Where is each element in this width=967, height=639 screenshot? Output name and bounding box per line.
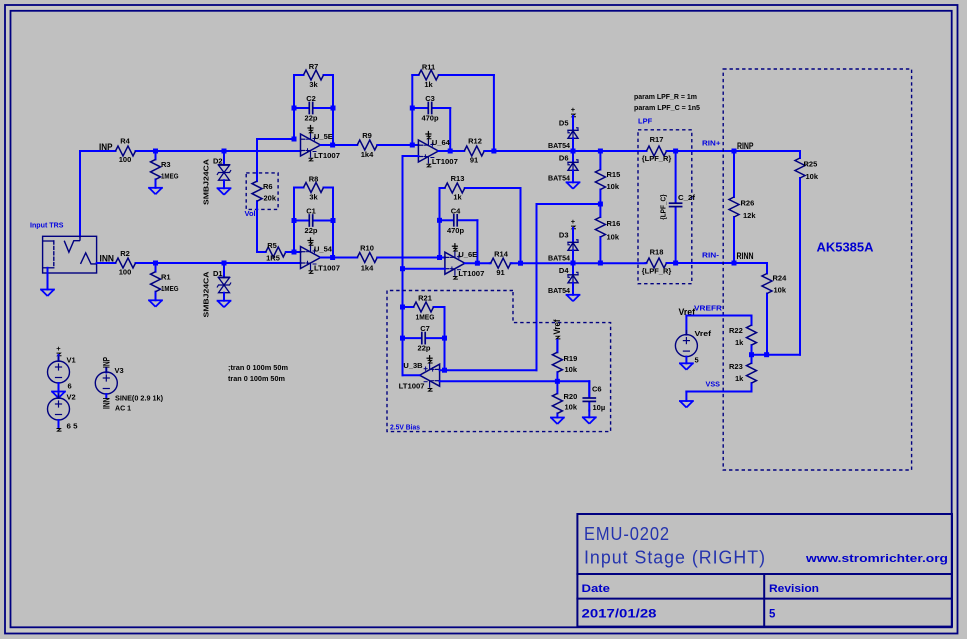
- svg-text:5: 5: [695, 356, 699, 365]
- ground flag between V1 V2: [52, 383, 65, 398]
- diode D4 label: [559, 266, 569, 275]
- wire D2 to ground: [223, 180, 225, 188]
- svg-text:D5: D5: [559, 118, 569, 127]
- voltage source V3 label: [115, 366, 124, 375]
- svg-text:+: +: [571, 105, 576, 114]
- voltage source Vref label: [695, 329, 712, 338]
- svg-text:C3: C3: [425, 94, 435, 103]
- wire V3 top: [105, 369, 107, 373]
- svg-text:Input TRS: Input TRS: [30, 221, 64, 230]
- title block divider 2: [577, 598, 952, 600]
- comment 2.5V Bias: [390, 422, 420, 431]
- svg-text:1k: 1k: [735, 374, 744, 383]
- svg-text:R6: R6: [263, 182, 273, 191]
- wire flag to D5: [572, 116, 574, 130]
- svg-text:22p: 22p: [418, 344, 431, 353]
- svg-text:1k: 1k: [453, 193, 462, 202]
- voltage source V3: [95, 368, 117, 398]
- junction R22 R23: [749, 352, 754, 357]
- comment Input TRS: [30, 221, 64, 230]
- resistor R17: [642, 135, 672, 163]
- wire line to D6: [572, 151, 574, 162]
- svg-text:BAT54: BAT54: [548, 286, 571, 295]
- net label Vref top: [679, 307, 696, 317]
- wire R25 down rail: [799, 185, 801, 355]
- svg-text:RINN: RINN: [737, 251, 754, 261]
- jack tip contact: [64, 236, 80, 252]
- capacitor C3: [412, 94, 450, 123]
- svg-text:U_64: U_64: [432, 138, 451, 147]
- ground below R20: [551, 418, 564, 425]
- svg-text:INN: INN: [100, 253, 115, 263]
- svg-text:R7: R7: [309, 62, 319, 71]
- svg-text:LT1007: LT1007: [458, 269, 484, 278]
- wire D1 stub: [223, 263, 225, 277]
- wire D3 to line: [572, 250, 574, 263]
- svg-text:;tran 0 100m 50m: ;tran 0 100m 50m: [228, 363, 288, 372]
- wire line to D4: [572, 263, 574, 275]
- svg-text:R4: R4: [120, 136, 130, 145]
- resistor R20: [552, 381, 577, 417]
- diode D1 value SMBJ24CA: [202, 271, 211, 318]
- svg-text:SMBJ24CA: SMBJ24CA: [202, 271, 211, 318]
- resistor R11: [412, 62, 445, 89]
- svg-text:R1: R1: [161, 273, 171, 282]
- svg-text:22p: 22p: [305, 114, 318, 123]
- svg-text:3k: 3k: [309, 80, 318, 89]
- resistor R14: [490, 249, 512, 277]
- wire RINP to R25: [734, 151, 800, 157]
- directive param LPF_C: [634, 103, 700, 112]
- wire R12 to node: [485, 150, 573, 152]
- resistor R8: [294, 175, 333, 202]
- op-amp U_6E: [445, 244, 485, 279]
- wire C3 right rail: [449, 108, 451, 151]
- resistor R16: [595, 204, 620, 263]
- junction R16 bottom: [598, 261, 603, 266]
- voltage source V2 label: [67, 393, 76, 402]
- diode D3 label: [559, 230, 569, 239]
- net label INP: [99, 142, 113, 152]
- capacitor C4: [440, 206, 478, 235]
- junction U_54 output: [330, 255, 335, 260]
- svg-text:U_6E: U_6E: [458, 250, 477, 259]
- svg-text:2.5V Bias: 2.5V Bias: [390, 422, 420, 431]
- svg-text:1k: 1k: [424, 80, 433, 89]
- comment LPF box: [638, 130, 692, 284]
- svg-text:INP: INP: [102, 357, 112, 368]
- wire stage1 left rail: [293, 75, 295, 139]
- svg-text:Vref: Vref: [695, 329, 712, 338]
- wire VREF rail 3: [402, 307, 404, 375]
- diode D3 value BAT54: [548, 254, 571, 263]
- svg-text:R26: R26: [741, 199, 755, 208]
- net label INP rotated: [102, 357, 112, 368]
- svg-text:LT1007: LT1007: [314, 151, 340, 160]
- wire VREF rail vertical: [402, 156, 404, 307]
- resistor R12: [464, 137, 486, 165]
- svg-text:3k: 3k: [309, 193, 318, 202]
- svg-text:R24: R24: [773, 274, 788, 283]
- resistor R5: [266, 241, 287, 262]
- comment LPF: [638, 116, 653, 125]
- junction C_2f bottom: [673, 261, 678, 266]
- comment Vol box: [246, 173, 278, 210]
- svg-text:BAT54: BAT54: [548, 254, 571, 263]
- svg-text:10k: 10k: [806, 172, 819, 181]
- resistor R24: [762, 263, 787, 297]
- junction R21 left: [400, 305, 405, 310]
- title 2017/01/28: [582, 609, 658, 621]
- wire stage4 left rail: [439, 188, 441, 258]
- svg-text:R14: R14: [494, 249, 509, 258]
- resistor R22: [729, 316, 757, 355]
- svg-text:1k: 1k: [735, 338, 744, 347]
- junction R24 bottom: [764, 352, 769, 357]
- voltage source V2: [48, 394, 70, 424]
- svg-text:BAT54: BAT54: [548, 174, 571, 183]
- svg-text:{LPF_C}: {LPF_C}: [659, 194, 668, 220]
- wire stage1 right rail: [332, 75, 334, 145]
- svg-text:10k: 10k: [607, 233, 620, 242]
- ground below C6: [583, 417, 596, 424]
- svg-text:10µ: 10µ: [593, 403, 606, 412]
- svg-text:1MEG: 1MEG: [161, 284, 179, 293]
- svg-text:SINE(0 2.9 1k): SINE(0 2.9 1k): [115, 393, 163, 402]
- svg-text:U_54: U_54: [314, 245, 333, 254]
- svg-text:C2: C2: [306, 94, 316, 103]
- wire R18 to RINN: [668, 262, 735, 264]
- title revision 5: [769, 609, 776, 621]
- svg-text:R20: R20: [564, 392, 578, 401]
- svg-text:INP: INP: [99, 142, 113, 152]
- wire R10 to U_6E: [378, 257, 445, 259]
- comment RIN+: [702, 138, 721, 147]
- svg-text:Revision: Revision: [769, 583, 819, 595]
- wire jack sleeve to ground: [47, 268, 49, 290]
- wire stage U_54 left rail: [293, 188, 295, 253]
- wire INP horizontal: [80, 150, 301, 152]
- comment VSS: [706, 380, 721, 389]
- ground below D2: [218, 188, 231, 195]
- junction C7 left: [400, 336, 405, 341]
- voltage source Vref value 5: [695, 356, 699, 365]
- wire U_54 out to R10: [321, 257, 357, 259]
- directive param LPF_R: [634, 92, 697, 101]
- capacitor C6: [583, 381, 605, 412]
- wire U_3B out: [403, 374, 420, 376]
- junction R1 on INN: [153, 261, 158, 266]
- svg-text:100: 100: [119, 155, 132, 164]
- junction stage2 IN- node: [410, 143, 415, 148]
- svg-text:EMU-0202: EMU-0202: [584, 524, 670, 544]
- junction C4 left: [437, 218, 442, 223]
- svg-text:R15: R15: [607, 170, 621, 179]
- wire D5 to line: [572, 138, 574, 151]
- junction RINN: [732, 261, 737, 266]
- net label INN: [100, 253, 115, 263]
- svg-text:12k: 12k: [743, 211, 756, 220]
- svg-text:R21: R21: [418, 293, 432, 302]
- svg-text:1k4: 1k4: [361, 150, 374, 159]
- svg-text:+: +: [571, 217, 576, 226]
- svg-text:C_2f: C_2f: [678, 193, 696, 202]
- resistor R26: [729, 151, 756, 263]
- svg-text:VSS: VSS: [706, 380, 721, 389]
- svg-text:V1: V1: [67, 356, 76, 365]
- resistor R4: [114, 136, 138, 164]
- resistor R19: [552, 340, 577, 381]
- svg-text:R18: R18: [650, 248, 664, 257]
- svg-text:470p: 470p: [447, 226, 465, 235]
- svg-text:RIN-: RIN-: [702, 251, 720, 260]
- comment AK5385A: [817, 241, 874, 255]
- wire Vref to ground: [685, 357, 687, 364]
- wire V2 bottom: [58, 420, 60, 427]
- wire U_6E out to R14: [465, 262, 490, 264]
- junction R19 R20: [555, 379, 560, 384]
- svg-text:V3: V3: [115, 366, 124, 375]
- jack sleeve contact: [43, 241, 53, 268]
- svg-text:R3: R3: [161, 160, 171, 169]
- svg-text:LT1007: LT1007: [399, 382, 425, 391]
- svg-text:5: 5: [769, 609, 776, 621]
- wire R17 to RINP: [668, 150, 735, 152]
- capacitor C2: [294, 94, 333, 123]
- wire RINN to R24: [734, 262, 767, 264]
- ground below D4: [567, 295, 580, 302]
- capacitor C_2f: [659, 151, 696, 263]
- wire INP to R6 top: [256, 139, 258, 173]
- wire D6 to ground: [572, 170, 574, 182]
- junction U_3B IN-: [442, 368, 447, 373]
- svg-text:10k: 10k: [607, 182, 620, 191]
- svg-text:VREFR: VREFR: [694, 304, 723, 313]
- svg-text:+: +: [56, 344, 61, 353]
- wire V3 bottom: [105, 394, 107, 398]
- svg-text:100: 100: [119, 268, 132, 277]
- comment AK5385A box: [723, 69, 911, 470]
- net label INN rotated: [102, 398, 112, 410]
- title Input Stage (RIGHT): [584, 548, 766, 568]
- ground below R3: [149, 188, 162, 195]
- wire R5 to U_54 IN-: [286, 251, 301, 253]
- net label RINP: [737, 141, 754, 151]
- svg-text:C6: C6: [592, 385, 602, 394]
- svg-text:tran 0 100m 50m: tran 0 100m 50m: [228, 374, 285, 383]
- wire divider to R24 R25: [752, 354, 801, 356]
- wire Vref to R19: [556, 340, 558, 352]
- diode D1 SMBJ24CA: [217, 277, 231, 293]
- voltage source V1 value 6: [68, 382, 72, 391]
- wire flag to D3: [572, 228, 574, 242]
- title block divider 1: [577, 573, 952, 575]
- svg-text:R10: R10: [360, 244, 374, 253]
- svg-text:BAT54: BAT54: [548, 141, 571, 150]
- junction R15 top: [598, 149, 603, 154]
- wire bottom line to LPF: [573, 262, 646, 264]
- wire R11 to feedback corner: [445, 75, 494, 151]
- svg-text:1MEG: 1MEG: [161, 172, 179, 181]
- resistor R15: [595, 151, 620, 204]
- svg-text:R9: R9: [362, 131, 372, 140]
- junction D1 on INN: [222, 261, 227, 266]
- svg-text:R23: R23: [729, 362, 743, 371]
- svg-text:AK5385A: AK5385A: [817, 241, 874, 255]
- svg-text:10k: 10k: [774, 286, 787, 295]
- wire D2 stub: [223, 151, 225, 165]
- diode D5 value BAT54: [548, 141, 571, 150]
- diode D4 value BAT54: [548, 286, 571, 295]
- wire R24 down: [766, 297, 768, 355]
- svg-text:1k4: 1k4: [361, 263, 374, 272]
- voltage source V3 value SINE: [115, 393, 163, 402]
- net label Vref rotated: [552, 319, 562, 339]
- junction D5 D6: [571, 149, 576, 154]
- title www.stromrichter.org: [805, 553, 948, 565]
- svg-text:Input Stage (RIGHT): Input Stage (RIGHT): [584, 548, 766, 568]
- junction C3 left: [410, 106, 415, 111]
- title block divider vertical: [763, 574, 765, 627]
- capacitor C1: [294, 207, 333, 236]
- svg-text:LT1007: LT1007: [432, 157, 458, 166]
- junction D3 D4: [571, 261, 576, 266]
- wire U_5E out to R9: [321, 144, 357, 146]
- diode D5 BAT54: [568, 128, 578, 139]
- op-amp U_3B: [399, 356, 440, 391]
- power flag + D3: [571, 217, 576, 229]
- wire U_3B IN+ wire: [440, 380, 590, 382]
- title Date: [582, 583, 611, 595]
- wire R13 to feedback corner: [470, 188, 521, 263]
- wire VREF rail 2: [402, 269, 404, 307]
- wire bias vertical: [536, 204, 538, 370]
- wire R21 right rail: [444, 307, 446, 370]
- ground below R1: [149, 300, 162, 307]
- power flag + D5: [571, 105, 576, 117]
- junction U_64 output: [448, 149, 453, 154]
- svg-text:RINP: RINP: [737, 141, 754, 151]
- svg-text:U_3B: U_3B: [403, 361, 423, 370]
- net label RINN: [737, 251, 754, 261]
- svg-text:www.stromrichter.org: www.stromrichter.org: [805, 553, 948, 565]
- op-amp U_64: [418, 132, 458, 167]
- resistor R2: [114, 249, 138, 277]
- svg-text:Vref: Vref: [552, 319, 562, 335]
- junction U_5E output: [330, 143, 335, 148]
- svg-text:R13: R13: [451, 174, 465, 183]
- junction C2 right: [331, 106, 336, 111]
- svg-text:20k: 20k: [264, 194, 277, 203]
- svg-text:10k: 10k: [565, 402, 578, 411]
- junction C_2f top: [673, 149, 678, 154]
- voltage source V1: [48, 357, 70, 387]
- svg-text:D3: D3: [559, 230, 569, 239]
- svg-text:RIN+: RIN+: [702, 138, 721, 147]
- wire R9 to U_64: [378, 144, 418, 146]
- svg-text:1MEG: 1MEG: [416, 313, 435, 322]
- svg-text:INN: INN: [102, 398, 112, 410]
- diode D4 BAT54: [568, 272, 578, 283]
- resistor R23: [729, 355, 757, 392]
- title block outline: [577, 514, 952, 627]
- svg-text:SMBJ24CA: SMBJ24CA: [202, 158, 211, 205]
- svg-text:AC 1: AC 1: [115, 403, 131, 412]
- junction D2 on INP: [222, 149, 227, 154]
- wire INN from jack: [97, 262, 301, 264]
- wire Vref node: [686, 316, 751, 335]
- wire D1 to ground: [223, 293, 225, 301]
- junction U_6E IN+ on VREF rail: [400, 266, 405, 271]
- svg-text:LPF: LPF: [638, 116, 653, 125]
- diode D1 label: [213, 269, 223, 278]
- svg-text:R19: R19: [564, 354, 578, 363]
- resistor R21: [403, 293, 445, 321]
- svg-text:Date: Date: [582, 583, 611, 595]
- svg-text:2017/01/28: 2017/01/28: [582, 609, 658, 621]
- voltage source V2 value 6.5: [67, 422, 78, 431]
- junction R15 R16 mid: [598, 202, 603, 207]
- junction RINP: [732, 149, 737, 154]
- svg-text:470p: 470p: [421, 114, 439, 123]
- diode D6 value BAT54: [548, 174, 571, 183]
- resistor R9: [357, 131, 379, 159]
- junction R11 feedback: [491, 149, 496, 154]
- wire C6 to ground: [588, 411, 590, 418]
- svg-text:param LPF_C = 1n5: param LPF_C = 1n5: [634, 103, 700, 112]
- svg-text:6: 6: [68, 382, 72, 391]
- wire R23 to VSS: [686, 392, 751, 402]
- diode D6 BAT54: [568, 160, 578, 171]
- title Revision: [769, 583, 819, 595]
- junction stage1 IN- node: [292, 137, 297, 142]
- jack J1 box: [43, 236, 97, 273]
- wire U_64 out to R12: [438, 150, 463, 152]
- diode D2 value SMBJ24CA: [202, 158, 211, 205]
- comment 2.5V Bias box: [387, 291, 611, 432]
- svg-text:V2: V2: [67, 393, 76, 402]
- svg-text:C7: C7: [420, 324, 430, 333]
- resistor R3: [151, 151, 179, 188]
- svg-text:91: 91: [470, 155, 478, 164]
- resistor R1: [151, 263, 179, 300]
- svg-text:6 5: 6 5: [67, 422, 78, 431]
- svg-text:R2: R2: [120, 249, 130, 258]
- ground below D1: [218, 301, 231, 308]
- junction U_6E output: [475, 261, 480, 266]
- wire D4 to ground: [572, 283, 574, 295]
- comment Vol: [245, 209, 256, 218]
- svg-text:{LPF_R}: {LPF_R}: [642, 154, 672, 163]
- junction R13 feedback: [518, 261, 523, 266]
- comment RIN-: [702, 251, 720, 260]
- jack ring contact: [81, 253, 97, 264]
- ground below Vref: [680, 363, 693, 370]
- svg-text:91: 91: [496, 268, 504, 277]
- svg-text:R25: R25: [804, 160, 818, 169]
- diode D2 SMBJ24CA: [217, 165, 231, 181]
- junction C1 left: [292, 218, 297, 223]
- directive tran: [228, 374, 285, 383]
- svg-text:D4: D4: [559, 266, 569, 275]
- voltage source V3 value AC 1: [115, 403, 131, 412]
- resistor R18: [642, 248, 672, 276]
- diode D6 label: [559, 153, 569, 162]
- junction stage U_54 IN- node: [292, 250, 297, 255]
- directive tran comment: [228, 363, 288, 372]
- power flag + V1: [56, 344, 61, 356]
- svg-text:D6: D6: [559, 153, 569, 162]
